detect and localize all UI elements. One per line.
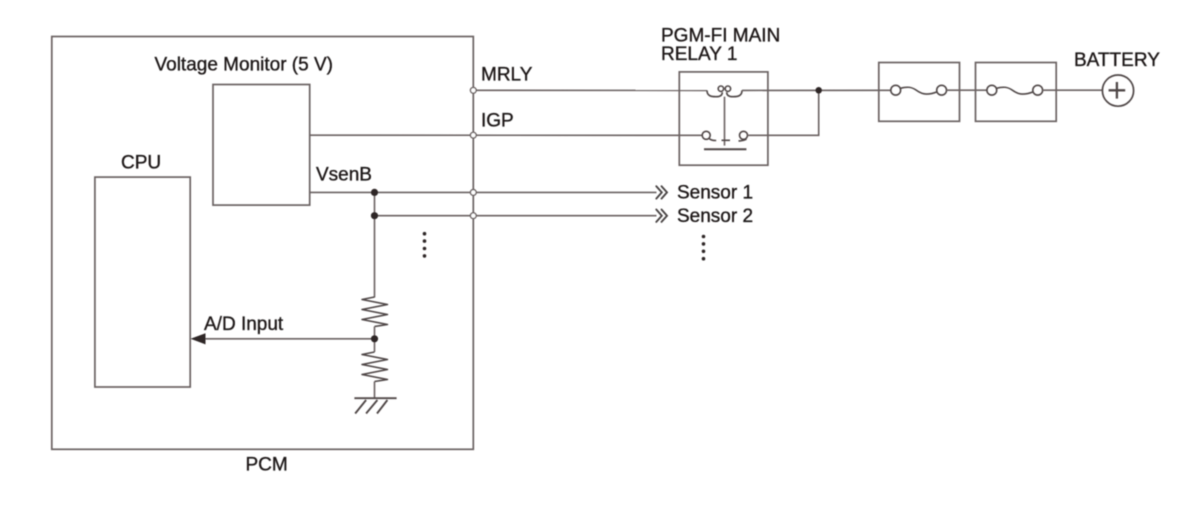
svg-text:CPU: CPU <box>121 153 161 174</box>
chevron connector Sensor 2 <box>656 210 667 222</box>
fuse F2 box <box>976 63 1057 122</box>
svg-text:PCM: PCM <box>246 454 288 475</box>
svg-text:BATTERY: BATTERY <box>1074 50 1160 71</box>
ellipsis dots below sensors <box>702 235 706 261</box>
pin MRLY (open circle on PCM edge) <box>470 87 476 93</box>
Voltage Monitor box U1 <box>213 85 310 206</box>
ground symbol <box>354 398 396 413</box>
fuse F2 left terminal <box>987 85 997 95</box>
chevron connector Sensor 1 <box>656 186 667 198</box>
relay contact right tail <box>739 139 747 141</box>
pin IGP <box>470 132 476 138</box>
wire relay coil out to fuse 1 <box>742 89 891 91</box>
pin Sensor 1 <box>470 190 476 196</box>
svg-text:Sensor 2: Sensor 2 <box>677 206 753 227</box>
fuse F1 right terminal <box>937 85 947 95</box>
relay switch contact right <box>740 131 748 139</box>
relay contact bar <box>704 148 746 150</box>
wire vertical VsenB bus to resistor chain <box>374 192 376 297</box>
wire fuse 1 to fuse 2 <box>946 89 987 91</box>
fuse F2 right terminal <box>1033 85 1043 95</box>
svg-text:VsenB: VsenB <box>316 164 372 185</box>
relay armature link (coil to contact bar) <box>724 97 726 146</box>
PCM enclosure box <box>52 37 474 450</box>
svg-text:Voltage Monitor (5 V): Voltage Monitor (5 V) <box>155 55 333 76</box>
svg-text:A/D Input: A/D Input <box>204 314 284 335</box>
CPU box U2 <box>95 177 190 387</box>
wire fuse 2 to battery <box>1043 89 1103 91</box>
relay contact left tail <box>709 138 716 140</box>
ellipsis dots below Sensor 2 junction <box>423 232 427 258</box>
svg-text:RELAY 1: RELAY 1 <box>661 44 737 65</box>
node junction dot on Sensor 2 line <box>371 212 378 219</box>
fuse F2 element <box>996 87 1033 94</box>
wire Sensor 2 line <box>375 215 657 217</box>
wire R2 to ground <box>374 382 376 399</box>
wire A/D Input <box>196 338 375 340</box>
wire MRLY (PCM pin to relay coil) <box>473 89 707 91</box>
node junction dot A/D tap <box>371 335 378 342</box>
svg-text:IGP: IGP <box>481 111 514 132</box>
battery plus sign <box>1109 82 1126 99</box>
fuse F1 box <box>879 63 960 122</box>
pin Sensor 2 <box>470 213 476 219</box>
wire IGP (voltage monitor to relay switch) <box>310 134 703 136</box>
svg-text:MRLY: MRLY <box>481 65 533 86</box>
wire relay switch to battery feed <box>748 90 819 135</box>
arrowhead into CPU <box>191 333 206 344</box>
node junction dot on Sensor 1 line <box>371 189 378 196</box>
relay contact center tick <box>722 139 731 141</box>
node junction dot battery feed <box>815 87 822 94</box>
resistor R2 (divider lower) <box>362 352 388 382</box>
relay switch contact left <box>702 131 710 139</box>
resistor R1 (pull-up/divider upper) <box>362 297 388 327</box>
relay K1 box <box>679 72 768 165</box>
fuse F1 left terminal <box>891 85 901 95</box>
relay coil <box>707 86 742 97</box>
battery BT1 positive terminal circle <box>1102 75 1133 106</box>
wire R1 to junction <box>374 327 376 353</box>
svg-text:Sensor 1: Sensor 1 <box>677 183 753 204</box>
wire VsenB / Sensor 1 line <box>310 191 657 193</box>
fuse F1 element <box>900 87 937 94</box>
